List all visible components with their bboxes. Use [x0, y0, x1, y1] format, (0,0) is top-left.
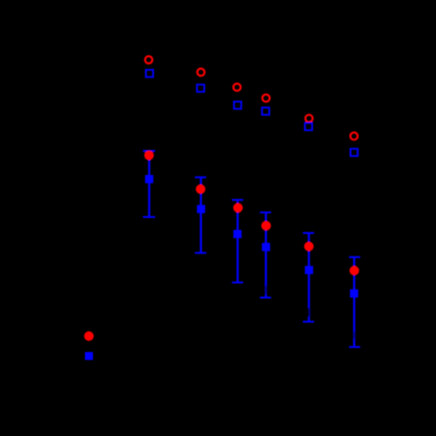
open blue square 4 [262, 108, 269, 115]
open red circle 1 [145, 56, 152, 63]
filled blue square 3 [233, 230, 241, 238]
error bar group 1 at x=149.2 [143, 151, 155, 217]
open red circle 6 [350, 132, 357, 139]
error bar group 5 at x=308.9 [303, 233, 314, 322]
filled red circle 2 [196, 184, 206, 194]
error bar group 4 at x=265.9 [260, 212, 271, 297]
open blue square 2 [197, 85, 204, 92]
filled red circle 6 [350, 266, 360, 276]
filled blue square 5 [305, 266, 313, 274]
error bar group 3 at x=237.6 [232, 200, 243, 283]
filled blue square 1 [145, 175, 153, 183]
filled red circle 5 [304, 242, 314, 252]
open red circle 4 [262, 94, 269, 101]
open red circle 2 [197, 69, 204, 76]
open blue square 1 [146, 70, 153, 77]
open blue square 5 [305, 123, 312, 130]
isolated filled red circle [84, 331, 94, 341]
error bar group 2 at x=200.9 [195, 177, 206, 253]
filled red circle 3 [233, 203, 243, 213]
isolated filled blue square [85, 352, 93, 360]
error bar group 6 at x=354.2 [349, 257, 360, 347]
open red circle 3 [233, 84, 240, 91]
filled red circle 1 [144, 151, 154, 161]
open blue square 3 [234, 102, 241, 109]
filled blue square 4 [262, 243, 270, 251]
filled blue square 2 [197, 205, 205, 213]
open blue square 6 [351, 149, 358, 156]
open red circle 5 [305, 115, 312, 122]
filled red circle 4 [261, 221, 271, 231]
filled blue square 6 [350, 289, 358, 297]
